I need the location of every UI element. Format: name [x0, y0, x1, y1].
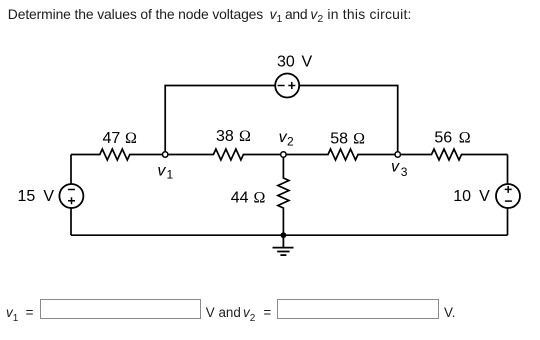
svg-text:v: v — [157, 163, 166, 180]
svg-text:V: V — [43, 188, 54, 205]
svg-text:V: V — [302, 54, 313, 71]
svg-text:58: 58 — [330, 130, 348, 147]
svg-text:V: V — [479, 188, 490, 205]
svg-text:2: 2 — [287, 134, 294, 148]
svg-text:15: 15 — [18, 188, 36, 205]
svg-text:47: 47 — [102, 130, 120, 147]
svg-text:Ω: Ω — [353, 130, 365, 147]
svg-text:30: 30 — [277, 54, 295, 71]
svg-text:Ω: Ω — [254, 190, 266, 207]
svg-text:44: 44 — [231, 190, 249, 207]
svg-text:1: 1 — [167, 167, 174, 181]
svg-text:Ω: Ω — [239, 128, 251, 145]
svg-text:Ω: Ω — [125, 130, 137, 147]
svg-text:38: 38 — [216, 128, 234, 145]
svg-text:3: 3 — [401, 165, 408, 179]
svg-text:v: v — [391, 159, 400, 176]
svg-text:10: 10 — [453, 188, 471, 205]
svg-text:Ω: Ω — [459, 129, 471, 146]
svg-text:56: 56 — [434, 129, 452, 146]
